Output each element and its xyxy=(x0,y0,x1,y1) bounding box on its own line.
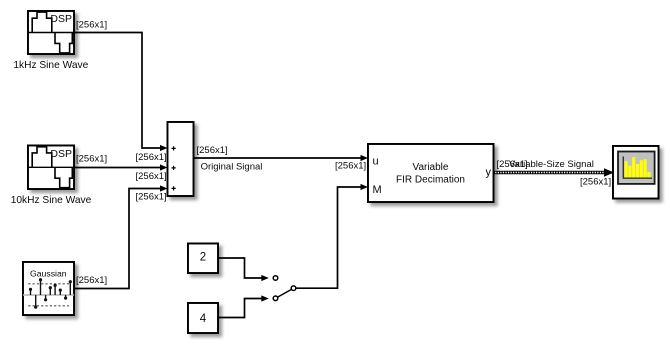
svg-text:10kHz Sine Wave: 10kHz Sine Wave xyxy=(11,195,92,206)
svg-text:Variable-Size Signal: Variable-Size Signal xyxy=(509,159,594,170)
block constant 2 xyxy=(188,244,218,274)
manual switch xyxy=(273,276,296,301)
svg-text:[256x1]: [256x1] xyxy=(136,171,167,182)
wire constant 4 to switch lower contact xyxy=(218,299,262,318)
svg-text:4: 4 xyxy=(200,313,207,325)
wire Gaussian to sum input 3 xyxy=(74,189,161,289)
svg-text:y: y xyxy=(486,167,492,179)
wire 1kHz Sine Wave to sum input 1 xyxy=(74,33,161,149)
svg-text:[256x1]: [256x1] xyxy=(197,145,228,156)
wire switch output to FIR M input xyxy=(296,187,361,288)
block Variable FIR Decimation xyxy=(368,144,494,202)
block 1kHz Sine Wave xyxy=(28,11,74,54)
wire constant 2 to switch upper contact xyxy=(218,258,262,278)
svg-text:[256x1]: [256x1] xyxy=(580,176,611,187)
svg-text:[256x1]: [256x1] xyxy=(76,19,107,30)
block 10kHz Sine Wave xyxy=(28,146,74,190)
sum block xyxy=(168,122,194,196)
block Gaussian noise source xyxy=(23,262,74,315)
svg-text:2: 2 xyxy=(200,252,206,264)
svg-text:Variable: Variable xyxy=(413,162,449,173)
svg-text:[256x1]: [256x1] xyxy=(136,192,167,203)
svg-text:Gaussian: Gaussian xyxy=(30,269,67,279)
svg-text:[256x1]: [256x1] xyxy=(76,275,107,286)
block constant 4 xyxy=(188,303,218,333)
wire 10kHz Sine Wave to sum input 2 xyxy=(74,167,161,169)
svg-text:[256x1]: [256x1] xyxy=(76,154,107,165)
wire FIR y output to scope (variable-size signal, dotted) xyxy=(494,168,615,176)
svg-text:1kHz Sine Wave: 1kHz Sine Wave xyxy=(13,60,88,71)
block Spectrum Analyzer scope xyxy=(613,146,659,199)
svg-text:M: M xyxy=(373,184,382,196)
svg-text:[256x1]: [256x1] xyxy=(136,152,167,163)
svg-text:FIR Decimation: FIR Decimation xyxy=(396,175,465,186)
svg-text:Original Signal: Original Signal xyxy=(201,161,263,172)
svg-text:u: u xyxy=(373,155,379,167)
wire sum output to FIR u input xyxy=(194,157,362,159)
svg-text:[256x1]: [256x1] xyxy=(335,160,366,171)
svg-text:DSP: DSP xyxy=(50,148,72,160)
svg-text:DSP: DSP xyxy=(50,13,72,25)
